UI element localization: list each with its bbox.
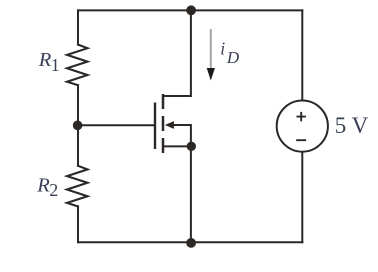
wire left rail upper (top corner to R1) — [77, 10, 79, 44]
transistor Q1 (enhancement NMOS): gate bar — [154, 103, 156, 150]
voltage source V1 circle — [277, 101, 328, 152]
svg-text:i: i — [220, 39, 225, 59]
resistor R2 — [67, 166, 88, 207]
svg-text:5 V: 5 V — [335, 113, 369, 138]
node source junction — [187, 142, 196, 151]
transistor Q1 body arrow (points to channel) — [165, 121, 174, 129]
current arrow iD head — [207, 68, 215, 81]
svg-text:D: D — [226, 48, 240, 67]
svg-text:R: R — [38, 49, 52, 71]
wire left rail lower (R2 to bottom corner) — [77, 206, 79, 242]
wire drain branch (top node down to MOSFET drain) — [164, 10, 191, 96]
current arrow iD shaft — [210, 29, 212, 70]
wire right rail lower (source V- to bottom corner) — [301, 152, 303, 243]
node bottom junction — [186, 238, 196, 248]
wire gate lead (divider node to gate) — [78, 124, 154, 126]
svg-text:R: R — [36, 175, 50, 197]
wire top rail — [78, 9, 302, 11]
node top (drain junction) — [186, 5, 196, 15]
wire MOSFET source lead — [164, 145, 191, 147]
resistor R1 — [67, 45, 88, 86]
wire right rail upper (top corner to source V+) — [301, 10, 303, 100]
voltage source plus sign — [297, 112, 306, 122]
transistor Q1 channel dashed bars — [162, 94, 165, 153]
voltage source minus sign — [296, 139, 306, 141]
svg-text:1: 1 — [51, 55, 60, 75]
wire source node down to bottom rail — [190, 146, 192, 242]
node gate divider junction — [73, 121, 83, 131]
svg-text:2: 2 — [49, 180, 58, 200]
wire bottom rail — [78, 241, 302, 243]
wire left rail middle (R1 to R2 through gate node) — [77, 85, 79, 166]
wire MOSFET body lead to source node — [173, 125, 191, 146]
